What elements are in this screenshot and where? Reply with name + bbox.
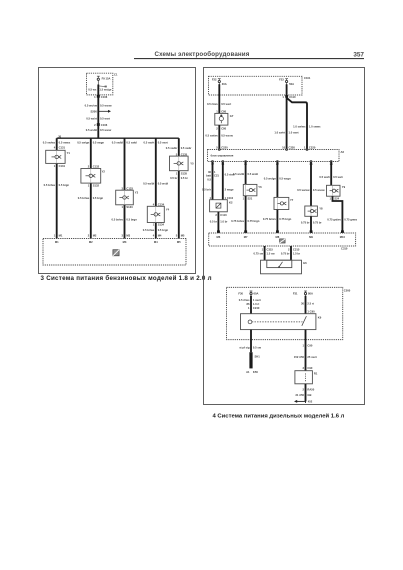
wire: R1 to terminal [305, 384, 307, 402]
svg-text:86: 86 [247, 302, 250, 306]
fuse F31 [304, 291, 307, 298]
svg-text:1.5 ws/ge: 1.5 ws/ge [99, 88, 111, 92]
svg-text:S134: S134 [158, 223, 165, 227]
wire: main feed [97, 85, 99, 139]
svg-text:GB: GB [307, 393, 311, 397]
svg-text:1: 1 [94, 95, 96, 99]
svg-text:2: 2 [215, 213, 217, 217]
svg-text:F23: F23 [279, 78, 284, 82]
svg-text:M5: M5 [177, 240, 181, 244]
svg-text:3: 3 [303, 366, 305, 370]
svg-text:30: 30 [301, 302, 304, 306]
svg-text:1.0 sw/rt: 1.0 sw/rt [274, 130, 285, 134]
svg-text:4: 4 [153, 234, 155, 238]
svg-text:0.5 swbr: 0.5 swbr [181, 146, 192, 150]
svg-text:Y3: Y3 [135, 190, 139, 194]
svg-text:1.0 swws: 1.0 swws [309, 124, 321, 128]
svg-text:1: 1 [153, 223, 155, 227]
svg-text:C315: C315 [293, 247, 300, 251]
svg-text:K9: K9 [318, 316, 322, 320]
svg-text:452: 452 [308, 400, 313, 404]
svg-text:F30: F30 [238, 292, 243, 296]
wire: ECU pin 12 to relay K2 [212, 162, 214, 200]
svg-text:1.0 swrt: 1.0 swrt [289, 130, 299, 134]
svg-text:S132: S132 [93, 183, 100, 187]
svg-text:4 Система питания дизельных мо: 4 Система питания дизельных моделей 1.6 … [213, 412, 345, 419]
svg-text:0.5 ws/bl: 0.5 ws/bl [86, 128, 97, 132]
svg-text:1: 1 [122, 205, 124, 209]
svg-text:M3: M3 [126, 234, 130, 238]
svg-text:M9: M9 [309, 235, 313, 239]
svg-text:0.5 swbl: 0.5 swbl [126, 140, 137, 144]
svg-text:0.5 ws/li: 0.5 ws/li [319, 175, 330, 179]
header title [154, 51, 364, 59]
wire: ECU pin 22 to injector Y7 [276, 162, 278, 198]
wire: injector Y7 to bus [276, 210, 278, 234]
svg-text:2.5 rt: 2.5 rt [307, 302, 314, 306]
svg-text:0.5 wsbl: 0.5 wsbl [248, 172, 259, 176]
switch G7 [215, 113, 234, 125]
svg-text:10: 10 [282, 145, 285, 149]
svg-text:2: 2 [288, 247, 290, 251]
connector 1 C110 [282, 95, 296, 99]
svg-text:0.5 sw/bl: 0.5 sw/bl [112, 140, 123, 144]
svg-text:0.5 wssw: 0.5 wssw [313, 188, 326, 192]
svg-text:0.5 swws: 0.5 swws [59, 140, 71, 144]
ground bus (dashed) [43, 239, 186, 266]
svg-text:0.5 ws/sw: 0.5 ws/sw [85, 103, 98, 107]
svg-text:0.5 wssw: 0.5 wssw [221, 133, 234, 137]
svg-text:M2: M2 [93, 234, 97, 238]
svg-text:1: 1 [304, 145, 306, 149]
wire: ECU pin 14 to relay K2 [222, 162, 224, 200]
connector bus C310 (dashed strip) [209, 233, 356, 246]
svg-text:50A: 50A [289, 82, 294, 86]
svg-text:0.5 brgn: 0.5 brgn [59, 183, 70, 187]
svg-text:0.75 br: 0.75 br [301, 220, 310, 224]
svg-text:1.0 sw/ws: 1.0 sw/ws [293, 124, 306, 128]
svg-text:1: 1 [282, 95, 284, 99]
ECU A6 (dashed strip) [208, 150, 340, 162]
branch 3 wire [124, 138, 126, 190]
svg-text:Y9: Y9 [342, 185, 346, 189]
wire: relay K9 contact to controller R1 [305, 330, 307, 371]
svg-text:0.5 wsrt: 0.5 wsrt [221, 102, 231, 106]
wire: bus to fuel pump right [290, 246, 292, 260]
svg-text:C90: C90 [307, 343, 312, 347]
svg-text:S24: S24 [334, 197, 339, 201]
svg-text:K50: K50 [253, 370, 258, 374]
svg-text:0.75 br: 0.75 br [281, 252, 290, 256]
svg-text:G7: G7 [230, 114, 234, 118]
svg-text:M2: M2 [89, 240, 93, 244]
svg-text:0.5 sw/rt: 0.5 sw/rt [144, 140, 155, 144]
wire: relay K2 to bus [217, 212, 219, 233]
wire: fuse F23 branch to ECU (right) [287, 98, 307, 150]
fuse F22 [218, 79, 221, 88]
svg-text:30A: 30A [222, 82, 227, 86]
svg-text:4: 4 [54, 146, 56, 150]
svg-text:0.5 brgn: 0.5 brgn [158, 228, 169, 232]
svg-text:0.5 brgn: 0.5 brgn [93, 196, 104, 200]
svg-text:2: 2 [94, 123, 96, 127]
injector Y5 [170, 156, 195, 171]
svg-text:C131: C131 [59, 146, 66, 150]
svg-text:SH1: SH1 [255, 355, 261, 359]
wire: relay K9 coil down [250, 330, 252, 353]
svg-text:3: 3 [122, 234, 124, 238]
branch 4 wire [155, 138, 157, 206]
svg-text:25 swrt: 25 swrt [307, 355, 316, 359]
svg-text:0.75 brgn: 0.75 brgn [248, 219, 260, 223]
injector Y3 [116, 190, 139, 205]
glow plugs R1 [295, 371, 318, 384]
wire: fuse F31 to relay K9 [305, 296, 307, 314]
svg-text:0.5 br: 0.5 br [170, 176, 177, 180]
svg-text:M7: M7 [244, 235, 248, 239]
svg-text:A6: A6 [341, 150, 345, 154]
svg-text:C500: C500 [344, 289, 351, 293]
svg-text:0.5 wsli: 0.5 wsli [333, 175, 343, 179]
svg-text:1: 1 [54, 164, 56, 168]
connector T2 C106 [94, 123, 108, 127]
svg-text:F22: F22 [212, 78, 217, 82]
svg-text:0.5 sw/br: 0.5 sw/br [166, 146, 178, 150]
svg-text:Y2: Y2 [102, 169, 106, 173]
injector Y8 [305, 206, 323, 216]
ECU bottom pin circles [212, 161, 333, 163]
bus pin mark [310, 230, 313, 233]
ground point G inside bus [113, 250, 119, 256]
svg-text:0.5: 0.5 [207, 177, 211, 181]
svg-text:0.5 rt/ws: 0.5 rt/ws [207, 102, 218, 106]
svg-text:M6: M6 [217, 235, 221, 239]
wire: injector Y9 to bus (jog right) [333, 196, 343, 233]
svg-text:3 Система питания бензиновых м: 3 Система питания бензиновых моделей 1.8… [41, 275, 212, 282]
svg-text:C110: C110 [289, 95, 296, 99]
svg-text:C80: C80 [221, 126, 226, 130]
branch 1 wire [56, 138, 58, 150]
svg-text:0.5 rt/ws: 0.5 rt/ws [239, 298, 250, 302]
svg-text:Y5: Y5 [190, 162, 194, 166]
svg-text:0.75 br/ws: 0.75 br/ws [263, 217, 277, 221]
wire: fuse F30 to relay K9 [250, 296, 252, 314]
svg-text:1: 1 [88, 183, 90, 187]
diagram 4 frame [204, 68, 365, 405]
svg-text:2: 2 [303, 387, 305, 391]
header rule [134, 58, 364, 60]
svg-text:C21: C21 [214, 174, 219, 178]
svg-text:0.75 br/ws: 0.75 br/ws [231, 219, 245, 223]
svg-text:2: 2 [88, 234, 90, 238]
svg-text:60A: 60A [254, 292, 259, 296]
svg-text:K2: K2 [229, 201, 233, 205]
wire: ECU pin 24 to injector Y9 [330, 162, 332, 186]
svg-text:M8: M8 [276, 235, 280, 239]
injector Y6 [243, 184, 262, 195]
svg-text:0.5 ws: 0.5 ws [88, 88, 97, 92]
svg-text:Y8: Y8 [319, 207, 323, 211]
bus pin mark [276, 230, 279, 233]
svg-text:2 wsge: 2 wsge [225, 187, 234, 191]
wire: ECU pin 21 to injector Y6 [245, 162, 247, 185]
svg-text:0.5 br/r: 0.5 br/r [202, 187, 211, 191]
svg-text:1.5 sw: 1.5 sw [267, 252, 276, 256]
relay K2 [210, 200, 233, 212]
svg-text:C310: C310 [341, 247, 348, 251]
fuel pump G6 [261, 260, 308, 274]
svg-text:0.5 br/ws: 0.5 br/ws [111, 217, 123, 221]
svg-text:0.75 br: 0.75 br [313, 220, 322, 224]
svg-text:M4: M4 [158, 234, 162, 238]
fuse box C500 (dashed, bottom) [227, 287, 343, 339]
svg-text:C106: C106 [101, 95, 108, 99]
svg-text:M3: M3 [123, 240, 127, 244]
injector Y7 [274, 197, 294, 209]
svg-text:1: 1 [214, 170, 216, 174]
svg-text:M10: M10 [340, 235, 346, 239]
wire: fuse F23 to ECU (left) [286, 84, 288, 149]
svg-text:блок управления: блок управления [211, 154, 234, 158]
injector Y4 [147, 206, 169, 222]
splice S206 [91, 110, 111, 114]
svg-text:1 swrt: 1 swrt [253, 298, 261, 302]
svg-text:0.5 sw/ws: 0.5 sw/ws [205, 133, 218, 137]
wire: switch G7 to ECU [218, 125, 220, 149]
branch 5 wire [178, 138, 180, 156]
svg-text:RA50: RA50 [307, 387, 314, 391]
svg-text:C1: C1 [114, 72, 118, 76]
svg-text:0.75 gn/ws: 0.75 gn/ws [327, 218, 341, 222]
svg-text:0.75 brgn: 0.75 brgn [279, 217, 291, 221]
svg-text:1: 1 [330, 197, 332, 201]
svg-text:0.5 wsbl: 0.5 wsbl [158, 182, 169, 186]
wire: injector Y8 to bus [310, 216, 312, 233]
svg-text:0.5 wssw: 0.5 wssw [100, 103, 113, 107]
svg-text:0.5 br: 0.5 br [210, 219, 217, 223]
svg-text:357: 357 [353, 52, 364, 59]
wire: injector Y6 to bus [245, 196, 247, 233]
bus pin mark [244, 230, 247, 233]
wire: bus to fuel pump left [264, 246, 266, 260]
injector Y2 [81, 169, 105, 184]
svg-text:C90: C90 [307, 366, 312, 370]
svg-text:0.5 ws/sw: 0.5 ws/sw [297, 188, 310, 192]
svg-text:batt: batt [206, 174, 211, 178]
svg-text:0.5 sw: 0.5 sw [253, 345, 262, 349]
svg-text:Y1: Y1 [67, 151, 71, 155]
svg-text:M4: M4 [154, 240, 158, 244]
fuse box S1 (dashed) [87, 73, 113, 95]
svg-text:0.5 sw/gn: 0.5 sw/gn [77, 140, 89, 144]
svg-text:S21: S21 [248, 197, 253, 201]
svg-text:0.5 sw/ws: 0.5 sw/ws [43, 140, 56, 144]
svg-text:0.5 brgn: 0.5 brgn [126, 217, 137, 221]
svg-text:152 rt50: 152 rt50 [294, 355, 305, 359]
wire: fuse F22 to switch G7 [218, 84, 220, 113]
svg-text:0.5 swrt: 0.5 swrt [158, 140, 168, 144]
wire: distribution bus line [57, 137, 179, 139]
svg-text:C220: C220 [289, 145, 296, 149]
svg-text:0.5 wsrw: 0.5 wsrw [100, 128, 112, 132]
svg-text:S133: S133 [126, 205, 133, 209]
shielded wire bar [249, 352, 252, 368]
svg-text:Y6: Y6 [258, 185, 262, 189]
svg-text:1: 1 [176, 171, 178, 175]
svg-text:1: 1 [54, 234, 56, 238]
svg-text:C220: C220 [309, 145, 316, 149]
svg-text:1: 1 [243, 197, 245, 201]
diagram 3 frame [39, 68, 196, 274]
injector Y9 [327, 185, 346, 196]
svg-text:M1: M1 [59, 234, 63, 238]
terminal arrow to other circuit [294, 400, 313, 404]
svg-text:R1: R1 [314, 372, 318, 376]
svg-text:0.5 wsrt: 0.5 wsrt [100, 117, 110, 121]
svg-text:Y7: Y7 [290, 198, 294, 202]
svg-text:C101: C101 [304, 76, 311, 80]
svg-text:M1: M1 [55, 240, 59, 244]
svg-text:1.0 br: 1.0 br [220, 219, 227, 223]
svg-text:C220: C220 [221, 145, 228, 149]
svg-text:1: 1 [303, 343, 305, 347]
svg-text:0.5 br: 0.5 br [181, 176, 188, 180]
svg-text:30: 30 [208, 170, 211, 174]
injector Y1 [46, 150, 71, 163]
ground point G2 inside bus [280, 239, 286, 243]
svg-text:0.5 ws/gn: 0.5 ws/gn [264, 176, 276, 180]
svg-text:1: 1 [248, 306, 250, 310]
svg-text:1.5 br: 1.5 br [293, 252, 300, 256]
svg-text:C110: C110 [220, 213, 227, 217]
svg-text:0.75 sw: 0.75 sw [254, 252, 264, 256]
fuse F23 [285, 79, 288, 88]
wire: ECU pin 23 to injector Y8 [310, 162, 312, 207]
branch 2 wire [90, 138, 92, 168]
svg-text:1 C90: 1 C90 [307, 309, 315, 313]
svg-text:C106: C106 [101, 123, 108, 127]
svg-text:Схемы электрооборудования: Схемы электрооборудования [154, 51, 249, 58]
bus pin mark [341, 230, 344, 233]
svg-text:C131: C131 [59, 164, 66, 168]
svg-text:31 rt50: 31 rt50 [295, 393, 304, 397]
svg-text:1: 1 [262, 247, 264, 251]
svg-text:0.5 wsgn: 0.5 wsgn [279, 176, 291, 180]
fuse F9 [97, 76, 100, 85]
svg-text:0.5 br/ws: 0.5 br/ws [143, 228, 155, 232]
svg-text:0.5 br/ws: 0.5 br/ws [78, 196, 90, 200]
svg-text:S206: S206 [91, 110, 98, 114]
fuse F30 [250, 291, 253, 298]
svg-text:st pf sig: st pf sig [239, 345, 250, 349]
svg-text:1.0 rt: 1.0 rt [253, 302, 260, 306]
svg-text:5: 5 [216, 145, 218, 149]
svg-text:5: 5 [176, 234, 178, 238]
svg-text:80A: 80A [308, 292, 313, 296]
svg-text:M5: M5 [181, 234, 185, 238]
glow plug relay K9 [241, 314, 322, 330]
fuse box C101 (dashed, top) [209, 76, 303, 95]
svg-text:A1: A1 [246, 370, 250, 374]
svg-text:0.5 br/ws: 0.5 br/ws [44, 183, 56, 187]
svg-text:Y4: Y4 [166, 207, 170, 211]
connector T1 C106 [94, 95, 108, 99]
svg-text:F31: F31 [293, 292, 298, 296]
svg-text:2: 2 [216, 126, 218, 130]
fuse box internal labels [99, 85, 106, 88]
svg-text:0.75 gnws: 0.75 gnws [344, 218, 357, 222]
svg-text:0.5 swgn: 0.5 swgn [93, 140, 105, 144]
svg-text:S135: S135 [181, 171, 188, 175]
svg-text:F9 15A: F9 15A [102, 76, 111, 80]
svg-text:0.5 ws/rt: 0.5 ws/rt [86, 117, 97, 121]
svg-text:C240: C240 [253, 306, 260, 310]
svg-text:C315: C315 [267, 247, 274, 251]
svg-text:0.5 ws/bl: 0.5 ws/bl [143, 182, 154, 186]
bus pin mark [217, 230, 220, 233]
svg-text:0.5 ws/bl: 0.5 ws/bl [233, 172, 244, 176]
svg-text:G6: G6 [303, 261, 307, 265]
ECU top pin circles [218, 149, 308, 151]
